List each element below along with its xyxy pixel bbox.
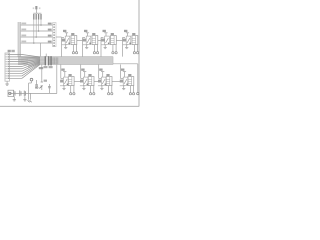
wire RL3 to K4 <box>116 39 122 41</box>
wire RL1 to K2 <box>77 39 83 41</box>
relay RL2 <box>92 36 98 45</box>
pins of relay RL1 <box>72 45 74 52</box>
power label K1 <box>63 30 66 32</box>
pin P1-9 <box>8 73 10 74</box>
label RL5 <box>69 74 72 76</box>
power label K7 <box>99 69 102 71</box>
power bar K7 <box>101 71 104 73</box>
label Q2 <box>83 39 86 42</box>
ground of cell K3 <box>104 45 106 48</box>
label Q7 <box>98 80 101 83</box>
label Q1 <box>62 39 65 42</box>
wire P1-2 to bus <box>10 56 41 59</box>
label SIG4 <box>48 41 52 43</box>
ground of cell K5 <box>63 86 65 89</box>
terminal 7b <box>111 93 113 95</box>
label SIG3 <box>48 35 52 37</box>
power flag PF1 <box>30 78 33 81</box>
label U1 <box>44 66 48 68</box>
relay RL8 <box>128 77 134 86</box>
pin P1-1 <box>8 54 10 55</box>
wire net SIG4 <box>21 42 53 44</box>
bus wires in band <box>21 57 57 59</box>
wire input K2 <box>82 38 84 57</box>
ground of cell K1 <box>65 45 67 48</box>
ground of cell K8 <box>123 86 125 89</box>
relay RL7 <box>106 77 112 86</box>
ground rail <box>10 92 57 94</box>
relay RL5 <box>68 77 74 86</box>
optocoupler U5 <box>64 77 69 86</box>
wire RL5 to K6 <box>74 80 81 82</box>
terminal 5a <box>70 93 72 95</box>
terminal 1a <box>72 52 74 54</box>
terminal 1b <box>76 52 78 54</box>
ground of cell K2 <box>86 45 88 48</box>
resistor RN1 element 3 <box>38 14 39 20</box>
wire input K5 <box>60 65 62 79</box>
terminal 8a <box>129 93 131 95</box>
relay RL1 <box>71 36 77 45</box>
relay RL6 <box>88 77 94 86</box>
wire RN1-1 to net <box>33 20 35 43</box>
pins of relay RL7 <box>108 86 110 93</box>
wire input K8 <box>120 65 122 79</box>
label RL3 <box>111 33 114 35</box>
relay RL3 <box>111 36 117 45</box>
power bar K2 <box>86 32 89 34</box>
wire net SIG3 <box>21 36 53 38</box>
label SIG2 left <box>21 29 26 31</box>
label Q6 <box>80 80 83 83</box>
wire P1 pin1 to ground <box>6 81 8 84</box>
wire P1-9 to bus <box>10 63 41 74</box>
pin JP1-2 <box>53 26 55 27</box>
terminal 7a <box>108 93 110 95</box>
optocoupler U3 <box>105 36 110 45</box>
pin JP1-6 <box>53 37 55 38</box>
label RL2 <box>92 33 95 35</box>
wire band to right pin <box>113 63 138 65</box>
pin P1-8 <box>8 70 10 71</box>
wire net SIG2 <box>21 30 53 32</box>
terminal 4b <box>137 52 139 54</box>
relay RL4 <box>132 36 138 45</box>
wire P1-11 to bus <box>10 65 41 79</box>
label RL7 <box>106 74 109 76</box>
label RL8 <box>128 74 131 76</box>
pin JP1-3 <box>53 29 55 30</box>
terminal 6a <box>90 93 92 95</box>
ground G4 <box>28 93 30 99</box>
pin JP1-8 <box>53 42 55 43</box>
connector JP1 <box>53 23 56 47</box>
label Q5 <box>60 80 63 83</box>
label P1b <box>11 50 14 52</box>
terminal 4a <box>133 52 135 54</box>
power label K2 <box>84 30 87 32</box>
ground of cell K6 <box>83 86 85 89</box>
resistor RN1 element 2 <box>36 14 37 20</box>
label U1 value <box>49 66 53 68</box>
label Q8 <box>120 80 123 83</box>
ground of cell K4 <box>126 45 128 48</box>
wire input K4 <box>122 38 124 57</box>
power label K3 <box>103 30 106 32</box>
wire RN1-3 to net <box>38 20 40 31</box>
IC U1 in band <box>46 57 47 65</box>
horizontal bus band <box>18 57 113 65</box>
terminal 6b <box>93 93 95 95</box>
wire input K7 <box>98 65 100 79</box>
pins of relay RL5 <box>70 86 72 93</box>
wire net SIG1 <box>21 24 53 26</box>
wire rail to cell K5 <box>56 65 58 94</box>
wire input K3 <box>100 38 102 57</box>
label RL1 <box>71 33 74 35</box>
pins of relay RL4 <box>133 45 135 52</box>
power bar K3 <box>104 32 107 34</box>
pin P1-10 <box>8 75 10 76</box>
label Q3 <box>101 39 104 42</box>
optocoupler U8 <box>123 77 128 86</box>
wire RL2 to K3 <box>98 39 101 41</box>
label RL6 <box>88 74 91 76</box>
label Q9 net <box>39 67 43 69</box>
wire U1 top stub <box>45 54 47 57</box>
terminal X <box>137 92 139 94</box>
wire input K6 <box>80 65 82 79</box>
power label K5 <box>61 69 64 71</box>
wire RL7 to K8 <box>112 80 121 82</box>
label RL4 <box>132 33 135 35</box>
capacitor C2 <box>48 84 50 93</box>
power bar K6 <box>83 71 86 73</box>
terminal 5b <box>73 93 75 95</box>
wire P1-6 to bus <box>10 61 41 67</box>
wire P1-8 to bus <box>10 62 41 71</box>
pin P1-5 <box>8 63 10 64</box>
wire P1-7 to bus <box>10 62 41 69</box>
label SIG1 <box>48 23 52 25</box>
wire band to Q9 <box>41 65 43 79</box>
pins of relay RL8 <box>129 86 131 93</box>
label Q9 <box>44 80 47 82</box>
wire P1-4 to bus <box>10 59 41 61</box>
pin P1-2 <box>8 56 10 57</box>
wire P1-10 to bus <box>10 64 41 76</box>
pin P1-3 <box>8 59 10 60</box>
power bar K5 <box>63 71 66 73</box>
pin JP1-5 <box>53 34 55 35</box>
wire JP1 to K1 <box>56 36 62 38</box>
pins of relay RL6 <box>90 86 92 93</box>
pins of relay RL3 <box>112 45 114 52</box>
capacitor C1 <box>36 80 38 85</box>
optocoupler U4 <box>126 36 131 45</box>
power flag VCC <box>35 6 37 9</box>
ground G2 <box>13 96 15 99</box>
terminal 3b <box>115 52 117 54</box>
capacitor C4 <box>19 90 21 96</box>
optocoupler U6 <box>83 77 88 86</box>
wire PF1 down <box>28 83 30 93</box>
label Q4 <box>123 39 126 42</box>
wire VCC to bus <box>40 43 42 57</box>
optocoupler U2 <box>86 36 91 45</box>
pin P1-4 <box>8 61 10 62</box>
wire RN1-4 to net <box>40 20 42 25</box>
pin JP1-7 <box>53 40 55 41</box>
ground G3 <box>24 96 26 99</box>
pin P1-6 <box>8 66 10 67</box>
connector P1 <box>5 53 9 81</box>
terminal 3a <box>112 52 114 54</box>
sheet border bottom <box>0 105 139 107</box>
ground <box>5 83 8 85</box>
wire P1-1 to bus <box>10 55 41 58</box>
resistor RN1 element 4 <box>40 14 41 20</box>
terminal 2a <box>93 52 95 54</box>
capacitor C3 <box>13 90 15 96</box>
pins of relay RL2 <box>93 45 95 52</box>
wire right edge drop <box>137 64 139 93</box>
optocoupler U1 <box>65 36 70 45</box>
pin JP1-9 <box>53 45 55 46</box>
label SIG3 left <box>21 35 26 37</box>
label SIG1 left <box>21 23 26 25</box>
terminal 2b <box>97 52 99 54</box>
wire P1-3 to bus <box>10 58 41 61</box>
wire: RN1 common bar <box>33 12 41 14</box>
wire P1-5 to bus <box>10 60 41 64</box>
label P1 <box>8 50 11 52</box>
power label K6 <box>81 69 84 71</box>
ground of cell K7 <box>101 86 103 89</box>
power bar K8 <box>123 71 126 73</box>
pin P1-11 <box>8 78 10 79</box>
wire RL6 to K7 <box>94 80 99 82</box>
power label K8 <box>121 69 124 71</box>
wire input K1 <box>61 38 63 57</box>
power label K4 <box>124 30 127 32</box>
wire wedge P1 to bus <box>28 57 40 67</box>
connector J2 <box>8 90 14 96</box>
terminal 8b <box>133 93 135 95</box>
pin JP1-4 <box>53 32 55 33</box>
label SIG2 <box>48 29 52 31</box>
sheet border right <box>138 0 140 107</box>
power bar K4 <box>126 32 129 34</box>
pin P1-7 <box>8 68 10 69</box>
wire RN1-2 to net <box>35 20 37 37</box>
optocoupler U7 <box>101 77 106 86</box>
resistor RN1 element 1 <box>33 14 34 20</box>
pin JP1-1 <box>53 24 55 25</box>
vertical bus <box>18 22 21 57</box>
label SIG4 left <box>21 41 26 43</box>
power bar K1 <box>65 32 68 34</box>
capacitor C5 <box>23 91 25 97</box>
